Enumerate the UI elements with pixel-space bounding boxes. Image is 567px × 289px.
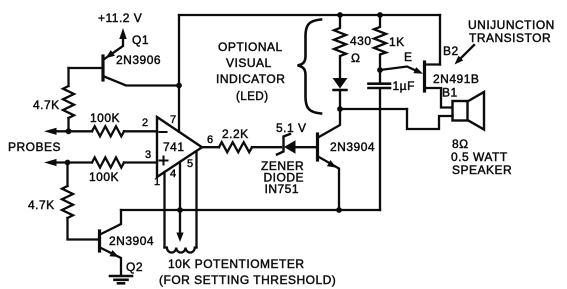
wire right rail drop to B2 bbox=[439, 15, 441, 65]
resistor 100K (upper) bbox=[90, 111, 124, 136]
svg-text:2: 2 bbox=[142, 117, 149, 129]
svg-text:100K: 100K bbox=[89, 170, 119, 184]
svg-text:100K: 100K bbox=[90, 111, 120, 125]
wire top rail bbox=[179, 14, 440, 16]
power +11.2 V bbox=[98, 11, 142, 59]
capacitor 1uF bbox=[369, 70, 415, 210]
wire mid rail bbox=[340, 108, 407, 110]
wire E to UJT emitter bbox=[380, 50, 423, 74]
svg-text:4: 4 bbox=[170, 168, 177, 180]
svg-text:1: 1 bbox=[154, 176, 161, 188]
svg-text:TRANSISTOR: TRANSISTOR bbox=[469, 31, 551, 45]
svg-text:430: 430 bbox=[350, 34, 372, 48]
svg-text:2N491B: 2N491B bbox=[433, 72, 479, 86]
resistor 100K (lower) bbox=[89, 158, 124, 185]
svg-text:(LED): (LED) bbox=[236, 91, 269, 103]
wire Q1 base bbox=[69, 67, 102, 69]
resistor 4.7K (lower) bbox=[28, 186, 73, 218]
svg-text:Q1: Q1 bbox=[132, 33, 149, 47]
node probe1 junction bbox=[66, 128, 72, 134]
ground bbox=[110, 276, 132, 283]
svg-text:Q2: Q2 bbox=[126, 260, 143, 274]
wire pin 5 drop bbox=[195, 152, 197, 248]
probe arrow upper bbox=[44, 128, 92, 135]
wire to pin 2 bbox=[124, 130, 157, 132]
wire pin 1 drop bbox=[163, 172, 165, 248]
resistor 4.7K (upper) bbox=[33, 86, 74, 118]
node emitter to rail bbox=[336, 207, 342, 213]
svg-text:5.1 V: 5.1 V bbox=[276, 121, 307, 135]
svg-text:IN751: IN751 bbox=[265, 182, 300, 196]
node pin4 to rail bbox=[177, 207, 183, 213]
svg-text:10K POTENTIOMETER: 10K POTENTIOMETER bbox=[168, 257, 305, 271]
potentiometer 10K wiper arrow bbox=[176, 210, 183, 242]
svg-text:+11.2 V: +11.2 V bbox=[98, 11, 142, 25]
svg-text:INDICATOR: INDICATOR bbox=[216, 72, 285, 86]
op-amp U1 741 bbox=[142, 114, 214, 188]
svg-text:2N3904: 2N3904 bbox=[109, 234, 154, 248]
wire to pin 3 bbox=[124, 161, 157, 163]
zener diode IN751 bbox=[261, 121, 316, 196]
svg-text:1K: 1K bbox=[389, 35, 405, 49]
svg-text:UNIJUNCTION: UNIJUNCTION bbox=[468, 18, 555, 32]
svg-text:7: 7 bbox=[170, 114, 177, 126]
transistor Q2 2N3904 bbox=[100, 210, 155, 275]
transistor Q1 2N3906 bbox=[103, 33, 179, 86]
svg-text:VISUAL: VISUAL bbox=[226, 56, 272, 70]
transistor 2N3904 (driver) bbox=[318, 110, 376, 211]
resistor 430 ohm bbox=[334, 15, 372, 78]
unijunction transistor 2N491B bbox=[425, 44, 480, 108]
wire pin 4 drop bbox=[179, 162, 181, 210]
resistor 2.2K bbox=[219, 127, 252, 152]
wire negative rail bbox=[121, 209, 380, 211]
wire left column upper bbox=[67, 68, 69, 86]
wire 4.7K to node bbox=[67, 118, 69, 131]
label potentiometer bbox=[159, 257, 336, 287]
svg-text:OPTIONAL: OPTIONAL bbox=[218, 40, 283, 54]
LED indicator bbox=[333, 78, 348, 109]
wire 4.7K to Q2 base bbox=[68, 218, 99, 240]
svg-text:Ω: Ω bbox=[351, 51, 360, 65]
svg-text:741: 741 bbox=[163, 140, 185, 154]
svg-text:5: 5 bbox=[187, 158, 194, 170]
speaker 8 ohm bbox=[407, 92, 512, 177]
svg-text:0.5 WATT: 0.5 WATT bbox=[451, 150, 508, 164]
potentiometer 10K body bbox=[165, 248, 197, 253]
svg-text:2N3906: 2N3906 bbox=[116, 53, 161, 67]
svg-text:8Ω: 8Ω bbox=[452, 137, 469, 151]
svg-text:6: 6 bbox=[207, 134, 214, 146]
node E junction bbox=[377, 67, 383, 73]
label optional visual indicator bbox=[216, 40, 285, 103]
resistor 1K bbox=[374, 15, 405, 70]
svg-text:2N3904: 2N3904 bbox=[330, 140, 375, 154]
svg-text:4.7K: 4.7K bbox=[33, 98, 60, 112]
probe arrow lower bbox=[44, 159, 92, 166]
node 430 top bbox=[337, 12, 343, 18]
wire op-amp output bbox=[202, 146, 219, 148]
svg-text:2.2K: 2.2K bbox=[222, 127, 249, 141]
svg-text:(FOR SETTING THRESHOLD): (FOR SETTING THRESHOLD) bbox=[159, 273, 336, 287]
node collector to mid rail bbox=[337, 106, 343, 112]
svg-text:4.7K: 4.7K bbox=[28, 198, 55, 212]
node V+ at op-amp column bbox=[176, 83, 182, 89]
svg-text:B1: B1 bbox=[442, 86, 458, 100]
svg-text:B2: B2 bbox=[443, 44, 459, 58]
node probe2 junction bbox=[65, 160, 71, 166]
brace optional indicator bbox=[298, 20, 322, 114]
svg-text:SPEAKER: SPEAKER bbox=[452, 163, 512, 177]
wire left V+ column (pin 7 feed) bbox=[178, 15, 180, 132]
svg-text:PROBES: PROBES bbox=[8, 140, 61, 154]
label unijunction transistor bbox=[455, 18, 555, 65]
wire to zener bbox=[252, 146, 281, 148]
wire left column lower bbox=[66, 163, 68, 187]
svg-text:1µF: 1µF bbox=[393, 79, 415, 93]
svg-text:3: 3 bbox=[145, 149, 152, 161]
svg-text:E: E bbox=[404, 50, 413, 64]
node 1K top bbox=[377, 12, 383, 18]
